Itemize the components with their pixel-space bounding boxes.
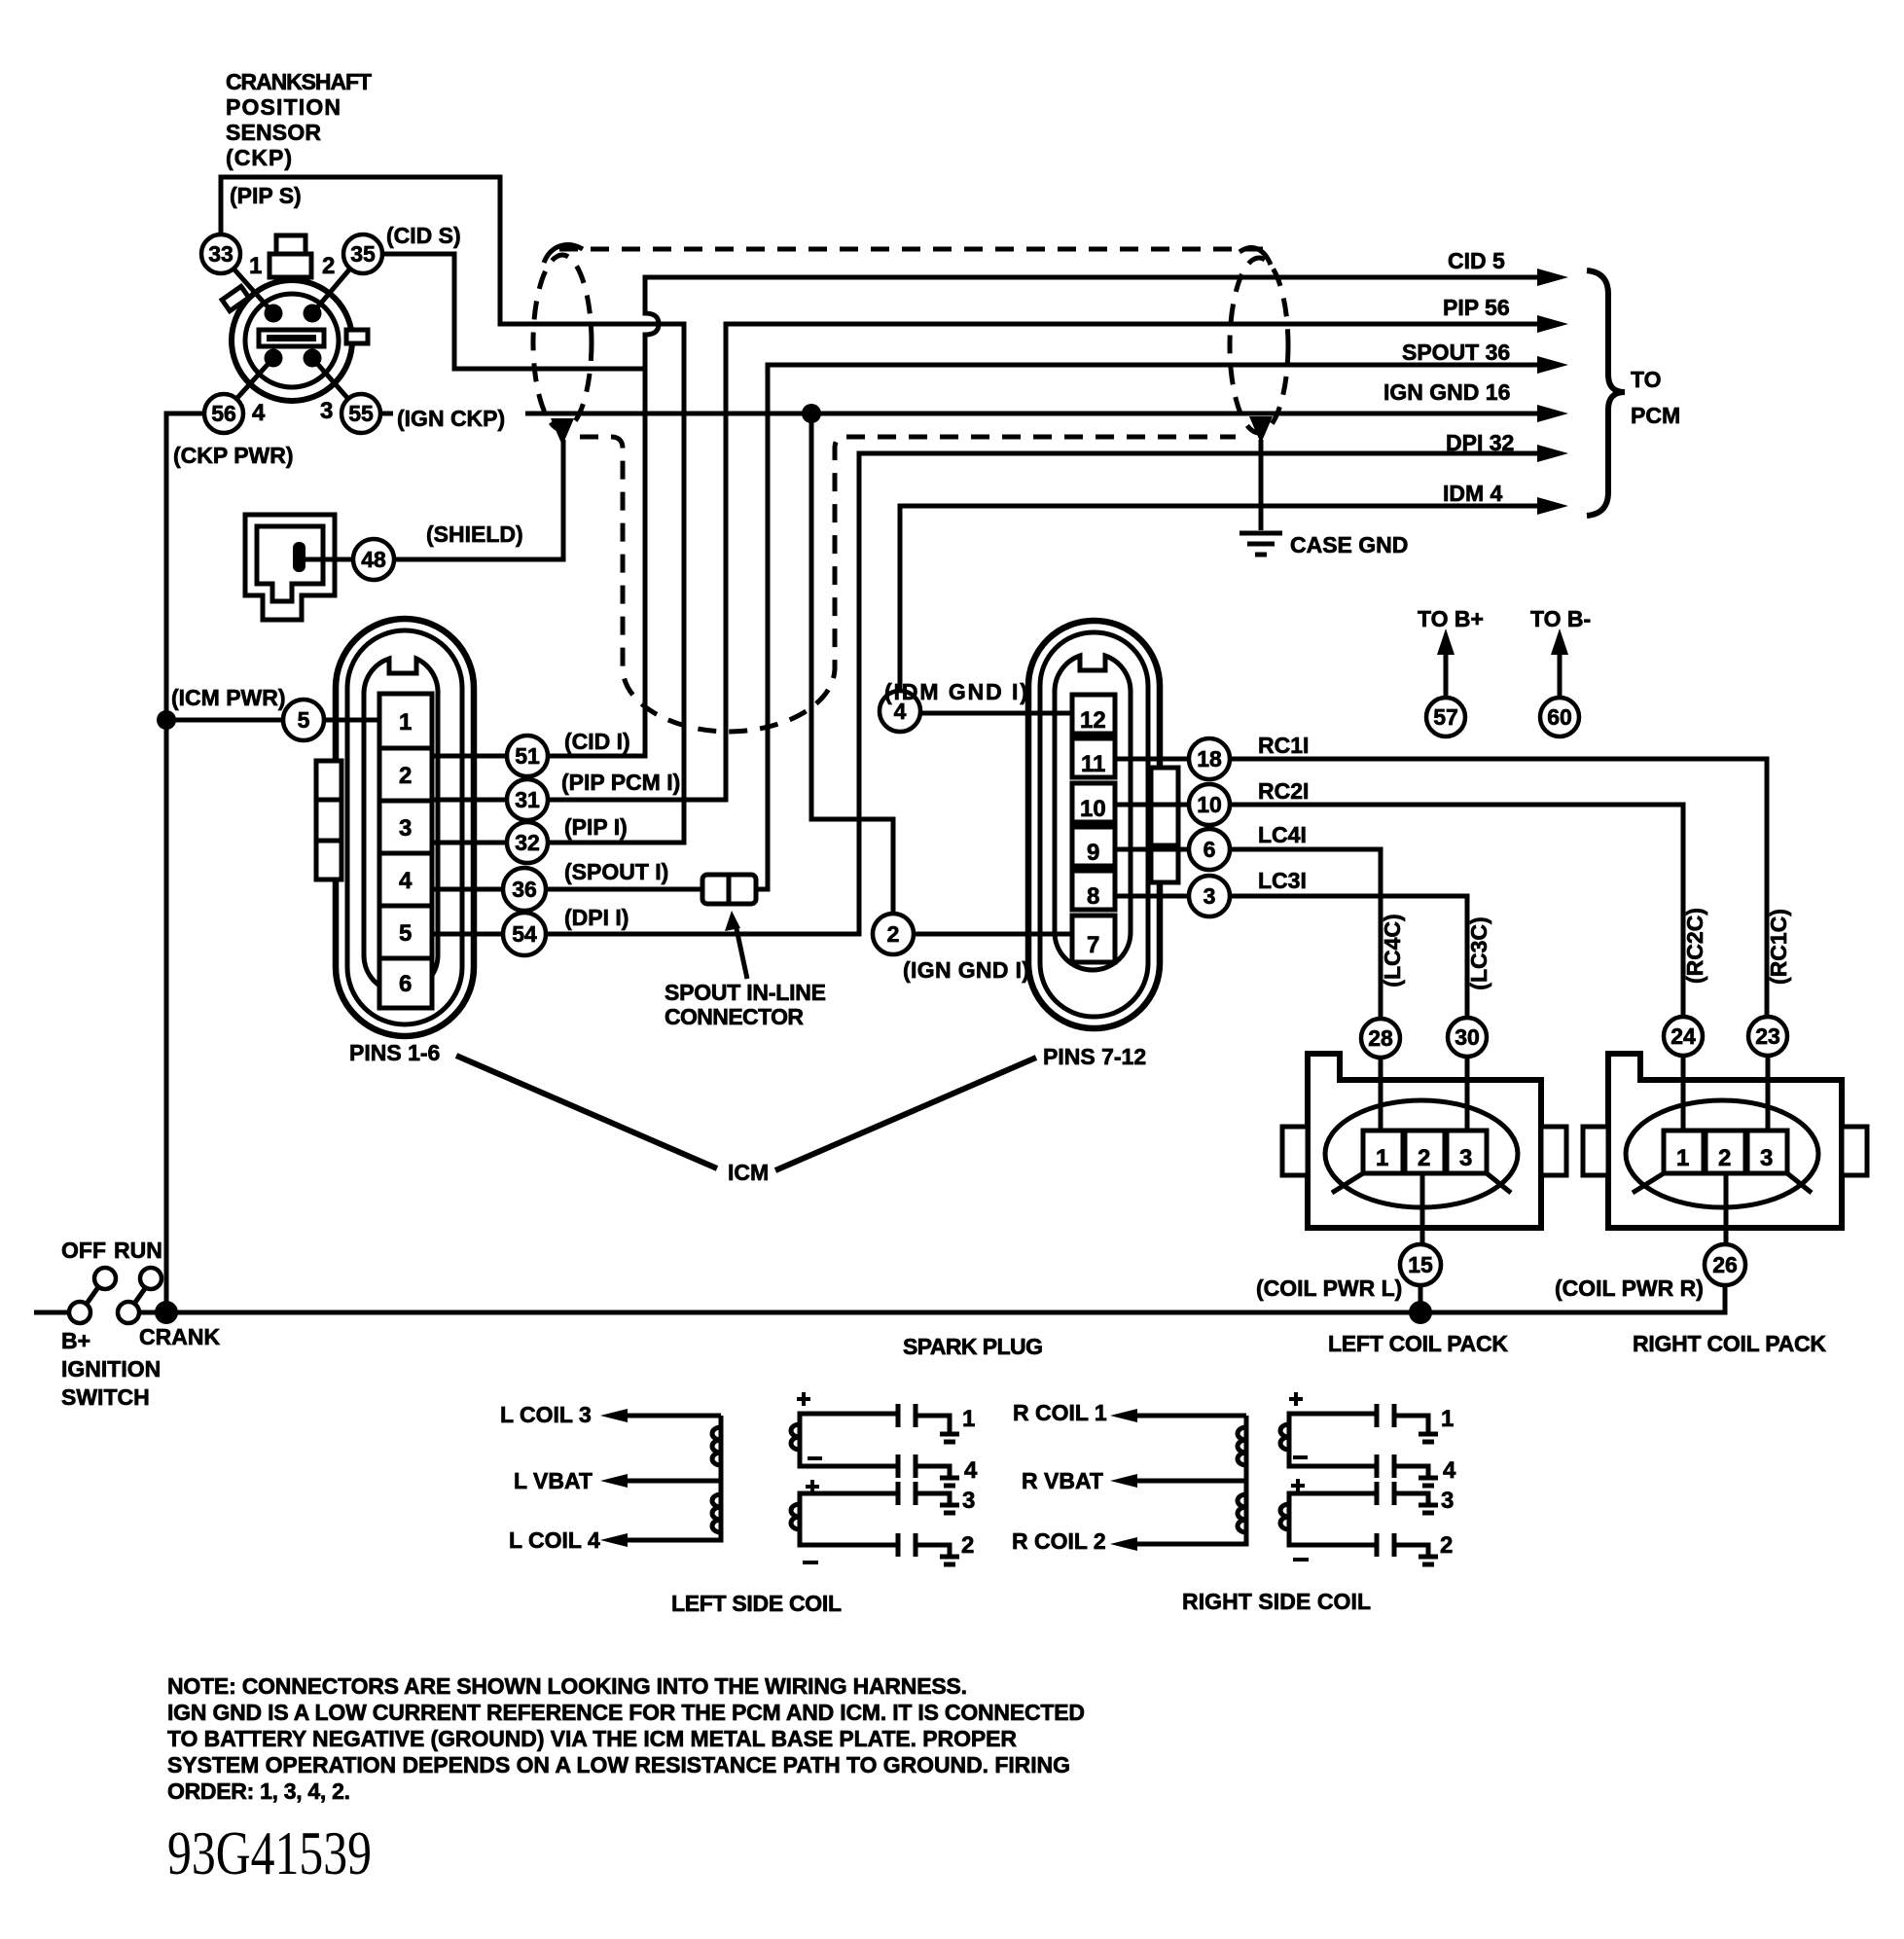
svg-text:3: 3 <box>1441 1488 1454 1514</box>
svg-text:ICM: ICM <box>728 1160 769 1185</box>
svg-text:26: 26 <box>1712 1252 1738 1277</box>
svg-text:RIGHT SIDE COIL: RIGHT SIDE COIL <box>1182 1589 1371 1614</box>
circle terminal 18 <box>1189 738 1230 779</box>
svg-text:TO B-: TO B- <box>1530 606 1591 631</box>
svg-text:2: 2 <box>322 253 335 279</box>
ICM connector pins 1-6 side tab <box>316 761 341 880</box>
wire terminal 23 to pack pin 3 <box>1766 1056 1771 1132</box>
ICM connector pins 7-12 inner cavity with key notch <box>1055 656 1131 970</box>
PCM line CID 5 arrowhead <box>1537 269 1568 286</box>
svg-text:35: 35 <box>350 241 376 267</box>
svg-text:24: 24 <box>1670 1023 1696 1049</box>
svg-text:18: 18 <box>1197 746 1222 772</box>
wire PIP PCM: circle 31 right, up, to PIP 56 PCM line <box>550 324 1540 800</box>
ignition switch RUN contact <box>140 1268 162 1289</box>
svg-text:3: 3 <box>962 1488 975 1514</box>
svg-text:(CID S): (CID S) <box>386 223 461 248</box>
wire pin 6 to circle 54 <box>432 932 503 937</box>
svg-text:(ICM PWR): (ICM PWR) <box>171 685 286 710</box>
shield right dashed ellipse <box>1230 258 1288 433</box>
label TO PCM <box>1631 367 1680 428</box>
wire PIP S: sensor pin1 circle 33 up, right, down to PIP I row <box>221 177 684 843</box>
svg-text:12: 12 <box>1080 707 1106 734</box>
right secondary winding 2 <box>1280 1479 1377 1560</box>
wire pin 3 to circle 31 <box>432 798 507 803</box>
svg-text:2: 2 <box>1718 1145 1731 1171</box>
svg-text:TO B+: TO B+ <box>1418 606 1484 631</box>
svg-text:CRANK: CRANK <box>139 1324 220 1349</box>
pin 11 box <box>1072 738 1115 777</box>
svg-text:10: 10 <box>1080 796 1106 822</box>
svg-text:28: 28 <box>1368 1025 1393 1051</box>
SPOUT in-line connector divider <box>727 875 732 904</box>
PCM line IGN GND 16 arrowhead <box>1537 405 1568 422</box>
spark plug R3 <box>1377 1482 1454 1514</box>
wire terminal 28 to pack pin 1 <box>1379 1058 1383 1132</box>
svg-text:5: 5 <box>298 707 310 733</box>
ground symbol CASE GND <box>1239 533 1282 555</box>
svg-text:CASE GND: CASE GND <box>1290 532 1408 557</box>
svg-text:9: 9 <box>1087 840 1099 866</box>
PCM line SPOUT 36 arrowhead <box>1537 356 1568 374</box>
circle terminal 10 <box>1189 784 1230 825</box>
lead pin2 to circle 35 <box>312 269 350 313</box>
left coil pack ellipse <box>1325 1100 1518 1207</box>
wire CID: pin2 circle 51 right, up with hop, to CID 5 PCM line <box>549 277 1540 756</box>
pointer line PINS 1-6 to ICM <box>456 1056 717 1168</box>
right coil pack pin 1 <box>1664 1131 1704 1173</box>
svg-text:3: 3 <box>399 815 412 842</box>
circle terminal 26 <box>1705 1244 1745 1285</box>
svg-text:L VBAT: L VBAT <box>514 1468 593 1493</box>
svg-text:B+: B+ <box>61 1328 90 1353</box>
wire ICM PWR junction to circle 5 <box>175 718 283 723</box>
wire pin 11 to circle 18 <box>1115 757 1189 762</box>
svg-text:SENSOR: SENSOR <box>226 120 321 145</box>
svg-text:2: 2 <box>1440 1532 1453 1559</box>
svg-text:48: 48 <box>361 547 386 572</box>
ICM connector pins 7-12 mid shell <box>1040 632 1148 1017</box>
svg-text:L COIL 4: L COIL 4 <box>509 1527 600 1553</box>
left secondary winding 2 <box>791 1480 896 1562</box>
svg-text:(SPOUT I): (SPOUT I) <box>564 859 668 884</box>
circle terminal 56 <box>204 394 243 433</box>
wire IGN CKP stub <box>381 412 393 416</box>
shield left arrowhead <box>551 418 574 446</box>
svg-text:54: 54 <box>512 921 537 947</box>
svg-text:R VBAT: R VBAT <box>1022 1468 1103 1493</box>
svg-text:15: 15 <box>1408 1252 1433 1277</box>
svg-text:3: 3 <box>320 398 333 424</box>
svg-text:PINS 1-6: PINS 1-6 <box>349 1040 440 1065</box>
right coil pack right tab <box>1842 1127 1867 1175</box>
label R VBAT with arrow <box>1022 1468 1246 1493</box>
svg-text:DPI 32: DPI 32 <box>1446 430 1514 455</box>
circle terminal 15 <box>1400 1244 1441 1285</box>
ignition switch lever CRANK/RUN <box>134 1287 146 1304</box>
svg-text:(LC3C): (LC3C) <box>1466 916 1491 989</box>
left coil pack keyway diagonals <box>1332 1173 1511 1193</box>
right coil pack pin 2 <box>1706 1131 1745 1173</box>
ICM pins 1-6 terminal column <box>379 694 432 1008</box>
svg-text:CONNECTOR: CONNECTOR <box>665 1004 804 1029</box>
circle terminal 35 <box>343 234 382 273</box>
svg-text:LC3I: LC3I <box>1258 868 1307 893</box>
svg-text:30: 30 <box>1455 1024 1480 1050</box>
svg-text:LEFT COIL PACK: LEFT COIL PACK <box>1328 1331 1508 1356</box>
label SPOUT IN-LINE CONNECTOR <box>665 980 826 1029</box>
svg-text:1: 1 <box>1676 1145 1689 1171</box>
wire circle 2 to pin 7 <box>914 932 1074 937</box>
svg-text:RC2I: RC2I <box>1258 778 1309 804</box>
shield dashed tube around ICM wire bundle <box>580 437 1236 732</box>
right coil pack ellipse <box>1626 1100 1818 1207</box>
spark plug R2 <box>1377 1532 1453 1564</box>
ignition switch B+ contact <box>69 1302 90 1323</box>
svg-text:6: 6 <box>1203 837 1216 862</box>
junction dot coil pwr L <box>1409 1301 1432 1324</box>
circle terminal 28 <box>1361 1019 1400 1058</box>
wire pin 8 to circle 3 <box>1115 894 1189 899</box>
svg-text:(CKP PWR): (CKP PWR) <box>173 443 294 468</box>
circle terminal 51 <box>507 736 548 776</box>
shield harness right hook <box>1239 248 1271 265</box>
ICM connector pins 1-6 outer shell <box>336 619 474 1036</box>
circle terminal 32 <box>507 822 548 863</box>
circle terminal 36 <box>503 868 546 911</box>
svg-text:PIP 56: PIP 56 <box>1443 295 1510 320</box>
svg-text:(IGN CKP): (IGN CKP) <box>397 406 505 431</box>
svg-text:RC1I: RC1I <box>1258 733 1309 758</box>
circle terminal 31 <box>507 779 548 820</box>
junction dot ICM PWR <box>157 710 176 730</box>
svg-text:RUN: RUN <box>114 1238 162 1263</box>
lead pin3 to circle 55 <box>312 358 348 399</box>
pin 9 box <box>1072 827 1115 866</box>
shield drain connector body <box>245 515 335 620</box>
svg-text:(PIP S): (PIP S) <box>230 183 302 208</box>
pin 10 box <box>1072 783 1115 822</box>
svg-text:R COIL 1: R COIL 1 <box>1013 1400 1107 1425</box>
svg-text:93G41539: 93G41539 <box>167 1818 372 1887</box>
label L VBAT with arrow <box>514 1468 721 1493</box>
svg-text:TO BATTERY NEGATIVE (GROUND) V: TO BATTERY NEGATIVE (GROUND) VIA THE ICM… <box>167 1726 1017 1751</box>
svg-text:51: 51 <box>515 743 540 769</box>
svg-text:5: 5 <box>399 920 412 947</box>
junction dot CRANK <box>155 1301 178 1324</box>
junction dot IGN GND <box>802 404 821 423</box>
svg-text:(RC2C): (RC2C) <box>1682 908 1707 984</box>
svg-text:(SHIELD): (SHIELD) <box>426 521 523 547</box>
svg-text:32: 32 <box>515 830 540 855</box>
svg-text:8: 8 <box>1087 883 1099 910</box>
lead pin1 to circle 33 <box>234 269 273 313</box>
wire pin to circle 48 <box>305 557 353 562</box>
wire IGN GND branch down to circle 2 <box>811 413 893 914</box>
svg-text:CRANKSHAFT: CRANKSHAFT <box>226 69 372 94</box>
right primary winding <box>1132 1416 1246 1544</box>
svg-text:SPOUT IN-LINE: SPOUT IN-LINE <box>665 980 826 1005</box>
wire terminal 30 to pack pin 3 <box>1465 1057 1470 1132</box>
svg-text:(PIP I): (PIP I) <box>564 814 628 840</box>
circle terminal 48 <box>353 539 394 580</box>
note text block <box>167 1673 1085 1804</box>
shield right arrowhead <box>1249 416 1273 444</box>
svg-text:11: 11 <box>1081 751 1105 777</box>
svg-text:4: 4 <box>964 1457 978 1484</box>
svg-text:1: 1 <box>962 1406 975 1432</box>
shield left dashed ellipse <box>533 255 592 430</box>
circle terminal 3 <box>1189 876 1230 916</box>
ICM connector pins 1-6 inner cavity with key notch <box>364 659 438 992</box>
svg-text:LEFT SIDE COIL: LEFT SIDE COIL <box>671 1591 842 1616</box>
wire pin 4 to circle 32 <box>432 841 507 845</box>
wire pin 2 to circle 51 <box>432 754 507 759</box>
left coil pack pin 1 <box>1363 1131 1403 1173</box>
left coil pack right tab <box>1541 1127 1566 1175</box>
pin 8 box <box>1072 871 1115 910</box>
wire SPOUT PCM: from in-line connector up to SPOUT 36 line <box>756 365 1540 889</box>
svg-text:ORDER: 1, 3, 4, 2.: ORDER: 1, 3, 4, 2. <box>167 1778 350 1804</box>
arrow to B+ <box>1437 628 1455 697</box>
left secondary winding 1 <box>791 1392 896 1466</box>
circle terminal 30 <box>1448 1018 1487 1057</box>
svg-text:RIGHT COIL PACK: RIGHT COIL PACK <box>1633 1331 1826 1356</box>
right coil pack pin 3 <box>1747 1131 1787 1173</box>
left primary winding <box>623 1416 721 1540</box>
SPOUT in-line connector pointer arrow <box>725 911 747 979</box>
circle terminal 55 <box>341 394 380 433</box>
ICM connector pins 7-12 outer shell <box>1028 621 1160 1028</box>
svg-text:PCM: PCM <box>1631 403 1680 428</box>
svg-text:TO: TO <box>1631 367 1662 392</box>
svg-text:(CID I): (CID I) <box>564 729 630 754</box>
pin 7 box <box>1072 916 1115 962</box>
svg-text:(PIP PCM I): (PIP PCM I) <box>561 770 680 795</box>
svg-text:31: 31 <box>515 787 540 812</box>
CKP sensor inner circle <box>245 294 339 387</box>
spark plug L1 <box>898 1404 975 1442</box>
svg-text:PINS 7-12: PINS 7-12 <box>1043 1044 1146 1069</box>
spark plug L4 <box>898 1454 978 1486</box>
svg-text:IGN GND IS A LOW CURRENT REFER: IGN GND IS A LOW CURRENT REFERENCE FOR T… <box>167 1700 1085 1725</box>
svg-text:NOTE: CONNECTORS ARE SHOWN LOO: NOTE: CONNECTORS ARE SHOWN LOOKING INTO … <box>167 1673 967 1699</box>
svg-text:1: 1 <box>399 709 412 736</box>
svg-text:55: 55 <box>348 401 374 426</box>
svg-text:SPARK PLUG: SPARK PLUG <box>903 1334 1043 1359</box>
wire RC1I to right coil pack terminal 23 <box>1230 759 1767 1016</box>
circle terminal 4 <box>880 691 920 732</box>
CKP sensor slot bar <box>267 335 316 341</box>
crankshaft position sensor CKP label <box>226 69 372 170</box>
shield harness dashed top line <box>559 247 1263 252</box>
svg-text:(COIL PWR L): (COIL PWR L) <box>1256 1275 1402 1301</box>
spark plug R4 <box>1377 1454 1456 1486</box>
svg-text:(DPI I): (DPI I) <box>564 905 629 930</box>
svg-text:(COIL PWR R): (COIL PWR R) <box>1555 1275 1704 1301</box>
CKP sensor top key base <box>269 254 311 277</box>
svg-text:1: 1 <box>1376 1145 1388 1171</box>
pin 12 box <box>1072 695 1115 734</box>
svg-text:3: 3 <box>1760 1145 1773 1171</box>
svg-text:2: 2 <box>399 763 412 789</box>
left coil pack body <box>1308 1054 1541 1228</box>
svg-text:(CKP): (CKP) <box>226 145 292 170</box>
wire IGN GND 16 PCM line <box>525 412 1540 416</box>
CKP sensor center slot <box>259 330 324 346</box>
svg-text:R COIL 2: R COIL 2 <box>1012 1528 1106 1554</box>
svg-text:3: 3 <box>1459 1145 1472 1171</box>
svg-text:4: 4 <box>399 868 413 894</box>
wire CKP PWR: circle 56 left and down the B+ bus <box>166 413 204 1312</box>
svg-text:36: 36 <box>512 877 537 902</box>
svg-text:SYSTEM OPERATION DEPENDS ON A: SYSTEM OPERATION DEPENDS ON A LOW RESIST… <box>167 1752 1070 1777</box>
ignition switch CRANK contact <box>118 1302 139 1323</box>
wire case ground drop <box>1259 440 1264 530</box>
svg-text:L COIL 3: L COIL 3 <box>500 1402 592 1427</box>
circle terminal 24 <box>1664 1017 1703 1056</box>
wire pin 5 to circle 36 <box>432 887 504 892</box>
svg-text:6: 6 <box>399 971 412 997</box>
svg-text:OFF: OFF <box>61 1238 106 1263</box>
svg-text:3: 3 <box>1203 883 1216 909</box>
CKP sensor pin dot 4 <box>265 349 283 368</box>
right coil pack body <box>1608 1054 1842 1228</box>
svg-text:33: 33 <box>208 241 234 267</box>
svg-text:4: 4 <box>1443 1457 1456 1484</box>
svg-text:(IDM GND I): (IDM GND I) <box>884 679 1027 704</box>
wire pin 9 to circle 6 <box>1115 847 1189 852</box>
wire DPI: circle 54 right, up to DPI 32 PCM line <box>546 453 1540 934</box>
wire circle 4 to pin 12 <box>920 711 1074 716</box>
CKP sensor left nub <box>222 286 249 310</box>
label R COIL 2 with arrow <box>1012 1528 1137 1554</box>
SPOUT in-line connector body <box>702 875 756 904</box>
circle terminal 5 <box>283 700 324 740</box>
spark plug L3 <box>898 1482 975 1514</box>
wire pin 10 to circle 10 <box>1115 803 1189 808</box>
shield drain connector inner <box>257 526 323 601</box>
svg-text:1: 1 <box>249 253 262 279</box>
svg-text:2: 2 <box>1418 1145 1430 1171</box>
CKP sensor top key small <box>276 235 305 255</box>
svg-text:23: 23 <box>1755 1023 1780 1049</box>
shield harness left hook <box>544 245 583 263</box>
wire circle 5 to pin 1 <box>324 718 381 723</box>
wire pack pin 2 to terminal 15 <box>1420 1173 1425 1244</box>
svg-text:56: 56 <box>211 401 236 426</box>
circle terminal 6 <box>1189 829 1230 870</box>
pointer line PINS 7-12 to ICM <box>775 1058 1036 1170</box>
circle terminal 60 <box>1540 698 1579 736</box>
CKP sensor pin dot 2 <box>304 305 322 323</box>
svg-text:7: 7 <box>1087 932 1099 958</box>
svg-text:(RC1C): (RC1C) <box>1766 909 1791 985</box>
circle terminal 23 <box>1748 1017 1787 1056</box>
svg-text:IGN GND 16: IGN GND 16 <box>1383 379 1510 405</box>
PCM line DPI 32 arrowhead <box>1537 445 1568 462</box>
label L COIL 3 with arrow <box>500 1402 721 1427</box>
CKP sensor pin dot 3 <box>304 349 322 368</box>
wire LC4I to left coil pack terminal 28 <box>1230 849 1381 1018</box>
CKP sensor body outer circle <box>232 280 352 401</box>
svg-text:10: 10 <box>1197 792 1222 817</box>
svg-text:SWITCH: SWITCH <box>61 1384 150 1410</box>
svg-text:(IGN GND I): (IGN GND I) <box>903 957 1029 983</box>
ICM connector pins 7-12 side tab <box>1151 768 1178 882</box>
svg-text:CID 5: CID 5 <box>1448 248 1505 273</box>
wire RC2I to right coil pack terminal 24 <box>1230 805 1683 1016</box>
CKP sensor pin dot 1 <box>265 305 283 323</box>
circle terminal 57 <box>1426 698 1465 736</box>
svg-text:IGNITION: IGNITION <box>61 1356 161 1382</box>
lead pin4 to circle 56 <box>236 358 273 399</box>
ignition switch lever B+/OFF <box>87 1287 98 1304</box>
right coil pack keyway diagonals <box>1633 1173 1812 1193</box>
svg-text:4: 4 <box>252 400 266 426</box>
svg-text:2: 2 <box>887 921 900 947</box>
wire circle 36 to in-line connector <box>546 887 706 892</box>
ICM connector pins 1-6 mid shell <box>347 630 462 1024</box>
left coil pack pin 2 <box>1405 1131 1445 1173</box>
ignition switch OFF contact <box>94 1268 116 1289</box>
PCM line PIP 56 arrowhead <box>1537 315 1568 333</box>
wire terminal 24 to pack pin 1 <box>1681 1056 1686 1132</box>
wire CID S: from circle 35 right, down, tee into CID vertical <box>383 254 645 369</box>
CKP sensor right nub <box>346 330 368 343</box>
svg-text:60: 60 <box>1547 704 1572 730</box>
shield drain connector pin <box>293 542 305 572</box>
svg-text:57: 57 <box>1433 704 1458 730</box>
svg-text:2: 2 <box>961 1532 974 1559</box>
wire IDM: circle 4 up to IDM 4 PCM line <box>900 506 1540 691</box>
wire pack pin 2 to terminal 26 <box>1724 1173 1729 1244</box>
left coil pack pin 3 <box>1447 1131 1487 1173</box>
svg-text:IDM 4: IDM 4 <box>1443 481 1503 506</box>
arrow to B- <box>1551 628 1568 697</box>
ignition switch feed wire <box>34 1311 69 1315</box>
PCM line IDM 4 arrowhead <box>1537 497 1568 515</box>
svg-text:1: 1 <box>1441 1406 1454 1432</box>
wire circle 48 to shield arrowhead <box>394 440 563 559</box>
coil power bus wire <box>139 1285 1725 1312</box>
svg-text:(LC4C): (LC4C) <box>1380 914 1405 987</box>
spark plug R1 <box>1377 1404 1454 1442</box>
label R COIL 1 with arrow <box>1013 1400 1246 1425</box>
right coil pack left tab <box>1583 1127 1608 1175</box>
spark plug L2 <box>898 1532 974 1564</box>
circle terminal 54 <box>503 913 546 955</box>
left coil pack left tab <box>1282 1127 1308 1175</box>
right secondary winding 1 <box>1280 1392 1377 1466</box>
label L COIL 4 with arrow <box>509 1527 628 1553</box>
wire terminal 15 to bus <box>1419 1285 1423 1312</box>
brace TO PCM <box>1587 270 1625 516</box>
circle terminal 33 <box>201 234 240 273</box>
svg-text:SPOUT 36: SPOUT 36 <box>1402 340 1510 365</box>
svg-text:LC4I: LC4I <box>1258 822 1307 847</box>
circle terminal 2 <box>873 914 914 954</box>
wire LC3I to left coil pack terminal 30 <box>1230 896 1467 1017</box>
